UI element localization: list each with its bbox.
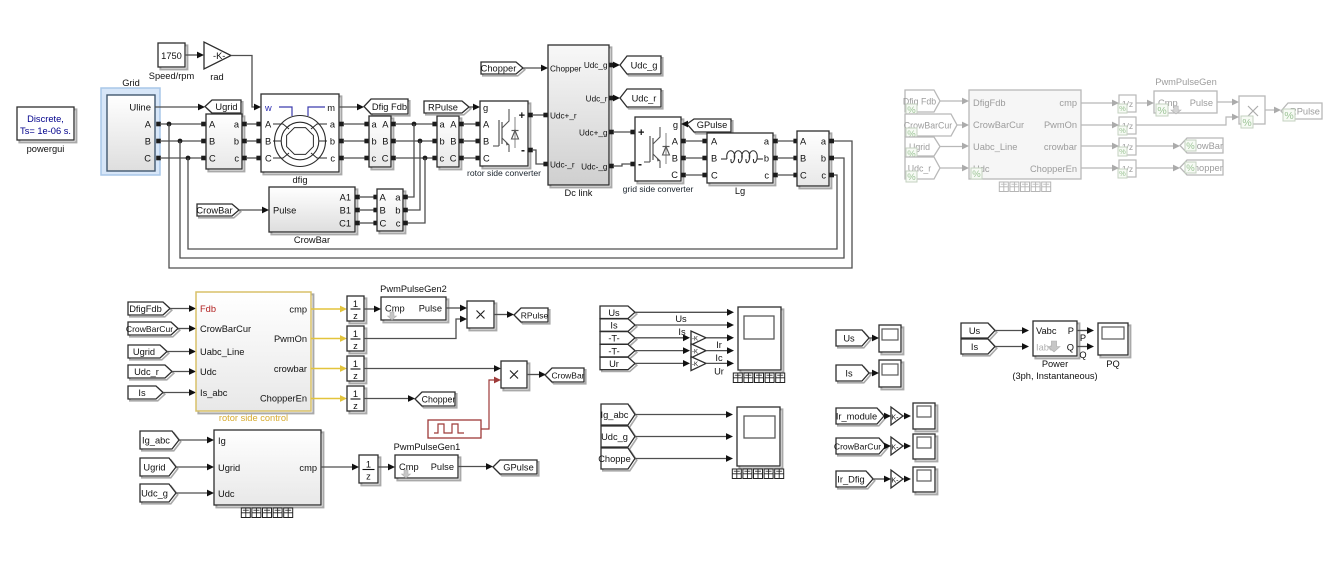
svg-text:%: % — [1119, 147, 1126, 156]
svg-text:GPulse: GPulse — [697, 120, 728, 130]
from tag GPulse (points left) — [689, 121, 733, 134]
goto tag RPulse — [516, 310, 550, 324]
svg-text:Udc+_r: Udc+_r — [550, 112, 577, 121]
svg-text:C: C — [144, 154, 151, 164]
rotor converter IGBT icon — [493, 145, 499, 147]
wire Grid B to measurement — [156, 139, 161, 144]
gain rad — [185, 54, 200, 56]
faded wire multiply to RPulse — [1265, 109, 1276, 111]
wire Pulse to multiply1 — [446, 307, 462, 309]
Lg inductor block — [709, 135, 775, 185]
svg-text:Chopper: Chopper — [422, 395, 456, 405]
svg-text:c: c — [372, 154, 377, 164]
svg-text:C: C — [380, 219, 387, 230]
faded wire crowbar to CrowBar tag — [1136, 145, 1175, 147]
faded PwmPulseGen block — [1154, 91, 1217, 113]
faded from tag CrowBarCur — [905, 114, 957, 136]
svg-text:C: C — [800, 171, 807, 181]
svg-text:z: z — [353, 371, 358, 381]
three-phase measurement block 4 — [799, 133, 831, 188]
wire Ur to gain — [635, 362, 685, 364]
svg-text:Ts= 1e-06 s.: Ts= 1e-06 s. — [20, 126, 71, 136]
svg-text:powergui: powergui — [27, 144, 65, 154]
multiply block 2 — [503, 363, 529, 390]
svg-text:Discrete,: Discrete, — [27, 114, 64, 124]
from tag Udc_g — [142, 486, 178, 504]
from tag Is — [130, 388, 165, 401]
svg-text:rotor side control: rotor side control — [219, 413, 288, 423]
faded wires to unit delays — [1081, 102, 1114, 104]
svg-text:1: 1 — [366, 460, 371, 470]
svg-text:Udc-_r: Udc-_r — [550, 161, 575, 170]
faded goto tag RPulse — [1281, 103, 1322, 119]
svg-text:K-: K- — [892, 478, 900, 485]
gain triangle CrowBarCur — [891, 437, 903, 455]
svg-text:CrowBarCur: CrowBarCur — [973, 120, 1024, 130]
svg-text:b: b — [372, 137, 377, 147]
svg-text:+: + — [519, 110, 525, 122]
svg-text:A1: A1 — [340, 193, 351, 203]
svg-text:CrowBarCur: CrowBarCur — [126, 324, 173, 334]
svg-text:Power: Power — [1042, 359, 1068, 369]
svg-text:Ic: Ic — [715, 353, 723, 363]
svg-text:Us: Us — [969, 326, 981, 336]
from tag Udc_g scope — [603, 428, 637, 449]
from tag RPulse top — [426, 103, 471, 115]
gain triangle Ir — [691, 331, 706, 345]
svg-text:Pulse: Pulse — [1190, 98, 1213, 108]
wires measurement2 to measurement3 with crowbar junctions — [391, 122, 396, 127]
grid scope block — [739, 409, 782, 468]
svg-text:GPulse: GPulse — [503, 463, 534, 473]
wires dfig rotor to measurement2 — [339, 122, 344, 127]
svg-text:b: b — [234, 137, 239, 147]
faded unit delay 1/z blocks — [1119, 95, 1136, 112]
display scope Ir_module — [915, 405, 937, 431]
svg-text:Pulse: Pulse — [419, 304, 442, 314]
svg-text:g: g — [673, 120, 678, 130]
svg-text:C1: C1 — [339, 219, 351, 229]
wires measurement3 to rotor side converter — [459, 122, 464, 127]
svg-text:Ig: Ig — [218, 436, 226, 446]
from tag Us power — [963, 325, 997, 340]
svg-text:1: 1 — [353, 389, 358, 399]
faded rotor controller block — [969, 90, 1081, 179]
svg-text:Q: Q — [1079, 350, 1086, 360]
svg-text:B: B — [145, 137, 151, 147]
unit delay 1/z block 4 — [349, 388, 366, 413]
svg-text:Dc link: Dc link — [565, 188, 593, 198]
svg-text:crowbar: crowbar — [274, 364, 307, 374]
unit delay 1/z block 5 — [361, 457, 380, 485]
svg-text:z: z — [353, 341, 358, 351]
wire -T- to gain Ic — [635, 350, 685, 352]
from tag Ugrid 2 — [142, 460, 178, 478]
svg-text:A: A — [145, 120, 152, 130]
wire -T- to gain Ir — [635, 337, 685, 339]
gain triangle Ur — [691, 357, 706, 371]
svg-text:K-: K- — [892, 445, 900, 452]
svg-text:CrowBar: CrowBar — [294, 235, 330, 245]
svg-text:B: B — [265, 137, 271, 147]
svg-text:z: z — [353, 401, 358, 411]
svg-text:-K: -K — [692, 349, 698, 355]
faded from tag Ugrid — [905, 137, 940, 156]
svg-text:B: B — [672, 154, 678, 164]
wires measurement1 to dfig — [242, 122, 247, 127]
svg-text:a: a — [821, 137, 827, 147]
svg-text:C: C — [265, 154, 272, 164]
dark red wire pulse generator to multiply2 — [481, 380, 495, 429]
svg-text:Ugrid: Ugrid — [133, 347, 155, 357]
svg-text:PwmOn: PwmOn — [1044, 120, 1077, 130]
svg-text:b: b — [330, 137, 335, 147]
svg-text:ChopperEn: ChopperEn — [1030, 164, 1077, 174]
svg-text:Chopper: Chopper — [481, 64, 517, 74]
svg-text:P: P — [1068, 326, 1074, 336]
faded multiply block — [1239, 96, 1265, 124]
svg-text:PwmPulseGen2: PwmPulseGen2 — [380, 284, 447, 294]
from tag Ir_module — [838, 410, 886, 426]
wire Us to scope — [635, 311, 729, 313]
svg-text:crowbar: crowbar — [1044, 142, 1077, 152]
yellow wire PwmOn to unit delay — [311, 338, 342, 340]
svg-text:CrowBar: CrowBar — [196, 206, 232, 216]
constant Speed/rpm 1750 — [160, 45, 187, 69]
wire phase A loop-back — [169, 124, 852, 268]
CrowBar block — [271, 189, 357, 234]
from tag CrowBarCur — [130, 324, 180, 337]
svg-text:b: b — [440, 137, 445, 147]
wire crowbar phase C junction — [406, 158, 425, 223]
svg-text:B: B — [711, 154, 717, 164]
svg-text:-T-: -T- — [608, 333, 619, 343]
multiply block 1 — [469, 303, 496, 330]
svg-text:c: c — [234, 154, 239, 164]
yellow wire ChopperEn to unit delay — [311, 398, 342, 400]
svg-text:A: A — [672, 137, 679, 147]
svg-text:Udc_r: Udc_r — [134, 367, 159, 377]
svg-text:CrowBar: CrowBar — [551, 371, 584, 381]
svg-text:A: A — [483, 120, 490, 130]
dfig machine icon — [275, 116, 326, 167]
from tag Ugrid — [130, 347, 169, 360]
svg-text:m: m — [327, 103, 335, 113]
svg-text:1: 1 — [353, 329, 358, 339]
svg-text:-K: -K — [692, 362, 698, 368]
yellow wire crowbar to unit delay — [311, 368, 342, 370]
svg-text:Uabc_Line: Uabc_Line — [200, 347, 244, 357]
from tag Ig_abc scope — [603, 406, 637, 427]
svg-text:grid side converter: grid side converter — [623, 184, 694, 194]
svg-text:Ugrid: Ugrid — [143, 463, 165, 473]
svg-text:Ir_module: Ir_module — [836, 412, 877, 422]
svg-text:B: B — [800, 154, 806, 164]
svg-text:Grid: Grid — [122, 78, 140, 88]
goto tag Chopper — [417, 394, 457, 408]
svg-text:Us: Us — [608, 308, 620, 318]
from tag -T- 1 — [602, 333, 637, 346]
svg-text:g: g — [483, 103, 488, 113]
svg-text:c: c — [764, 171, 769, 181]
svg-text:Udc-_g: Udc-_g — [581, 163, 608, 172]
svg-text:c: c — [440, 154, 445, 164]
faded goto tag Chopper — [1180, 160, 1223, 175]
gain triangle Ic — [691, 344, 706, 358]
svg-text:Q: Q — [1067, 343, 1074, 353]
svg-text:Ur: Ur — [609, 359, 619, 369]
svg-text:DfigFdb: DfigFdb — [973, 98, 1006, 108]
svg-text:%: % — [1186, 163, 1195, 174]
svg-text:Lg: Lg — [735, 186, 745, 196]
label grid side controller CJK — [241, 508, 250, 518]
machine scope block — [740, 309, 783, 372]
Dc link block — [550, 47, 611, 187]
label grid scope CJK — [732, 469, 741, 479]
from tag Is scope — [602, 321, 637, 334]
from tag CrowBar top — [199, 206, 241, 218]
svg-text:CrowBarCur: CrowBarCur — [200, 324, 251, 334]
grid side converter block — [637, 119, 683, 183]
wire multiply1 to RPulse goto — [494, 314, 509, 316]
svg-text:-: - — [521, 143, 525, 157]
svg-text:PwmPulseGen1: PwmPulseGen1 — [394, 442, 461, 452]
svg-text:Pulse: Pulse — [431, 462, 454, 472]
grid converter IGBT icon — [644, 161, 650, 163]
wire Udc+_g to grid converter + — [609, 130, 614, 135]
svg-text:PQ: PQ — [1106, 359, 1119, 369]
wire Chopper to grid scope — [635, 458, 728, 460]
svg-text:c: c — [330, 154, 335, 164]
svg-text:B1: B1 — [340, 206, 351, 216]
from tag Ur scope — [602, 359, 637, 372]
svg-text:1750: 1750 — [161, 51, 182, 61]
from tag Chopper scope — [603, 450, 637, 471]
pulse generator block — [428, 420, 481, 438]
wire Is to scope — [635, 324, 729, 326]
wire P to PQ — [1077, 330, 1089, 332]
PwmPulseGen2 block — [383, 299, 448, 322]
wire crowbar phase A junction — [406, 124, 414, 197]
wire Pulse to GPulse goto — [458, 466, 488, 468]
faded label rotor controller CJK — [999, 182, 1008, 192]
PQ display scope — [1100, 325, 1130, 357]
wire Udc_g to grid scope — [635, 436, 728, 438]
svg-text:1: 1 — [353, 359, 358, 369]
goto tag Dfig Fdb — [366, 101, 410, 116]
three-phase measurement block 1 — [208, 116, 244, 171]
svg-text:Udc: Udc — [218, 489, 235, 499]
from tag DfigFdb — [130, 304, 172, 317]
svg-text:DfigFdb: DfigFdb — [129, 304, 162, 314]
from tag Us scope — [602, 308, 637, 321]
svg-text:c: c — [821, 171, 826, 181]
svg-text:a: a — [764, 137, 770, 147]
svg-text:C: C — [671, 170, 678, 180]
yellow wire cmp to unit delay — [311, 308, 342, 310]
wire delay4 to Chopper goto — [364, 398, 410, 400]
svg-text:%: % — [1119, 126, 1126, 135]
svg-text:%: % — [1119, 169, 1126, 178]
wire dfig m to Dfig Fdb tag — [339, 106, 360, 108]
svg-text:Is: Is — [845, 369, 853, 379]
goto tag GPulse — [495, 462, 539, 476]
wire Q to PQ — [1077, 346, 1089, 348]
rotor side control block — [198, 294, 313, 413]
svg-text:%: % — [1284, 110, 1293, 122]
svg-text:cmp: cmp — [1059, 98, 1077, 108]
svg-text:%: % — [972, 169, 981, 180]
svg-text:PwmPulseGen: PwmPulseGen — [1155, 77, 1217, 87]
wire Ig_abc to grid scope — [635, 414, 728, 416]
svg-text:A: A — [450, 120, 457, 130]
svg-text:K-: K- — [892, 415, 900, 422]
svg-text:Udc_g: Udc_g — [141, 489, 168, 499]
svg-text:Speed/rpm: Speed/rpm — [149, 71, 195, 81]
svg-text:Udc_g: Udc_g — [631, 61, 658, 71]
from tag Ig_abc — [142, 433, 181, 451]
from tag Udc_r — [130, 367, 174, 380]
display scope Is — [881, 362, 903, 389]
display scope CrowBarCur — [915, 436, 937, 461]
svg-text:B: B — [450, 137, 456, 147]
svg-text:Uline: Uline — [129, 103, 151, 114]
svg-text:Dfig Fdb: Dfig Fdb — [372, 102, 407, 112]
svg-text:b: b — [821, 154, 826, 164]
faded goto tag CrowBar — [1180, 138, 1223, 153]
wire Udc-_g to grid converter - — [609, 164, 614, 169]
svg-text:%: % — [1242, 117, 1251, 129]
svg-text:C: C — [711, 171, 718, 181]
svg-text:Chopper: Chopper — [550, 65, 582, 74]
wire Udc_g output to tag — [609, 63, 614, 68]
svg-text:Udc+_g: Udc+_g — [579, 129, 608, 138]
faded from tag Udc_r — [905, 157, 940, 179]
wire Grid A to measurement — [156, 122, 161, 127]
from tag -T- 2 — [602, 346, 637, 359]
Lg coil icon — [721, 158, 727, 160]
svg-text:Is: Is — [971, 342, 979, 352]
svg-text:Ugrid: Ugrid — [215, 102, 237, 112]
wire cmp to delay5 — [321, 466, 354, 468]
from tag Chopper top — [483, 64, 525, 76]
svg-text:Uabc_Line: Uabc_Line — [973, 142, 1017, 152]
svg-text:A: A — [382, 120, 389, 130]
wire delay5 to PwmPulseGen1 — [378, 466, 390, 468]
from tag Is power — [963, 341, 997, 356]
faded wire chopper to Chopper tag — [1136, 167, 1175, 169]
svg-text:Us: Us — [843, 334, 855, 344]
svg-text:C: C — [209, 154, 216, 164]
svg-text:Ur: Ur — [714, 367, 724, 377]
svg-text:Cmp: Cmp — [399, 462, 419, 472]
gain triangle Ir_Dfig — [891, 470, 903, 488]
goto tag Ugrid — [207, 102, 243, 115]
wire gain to scope Ur — [706, 362, 729, 364]
svg-text:a: a — [440, 120, 446, 130]
svg-text:%: % — [1119, 104, 1126, 113]
svg-text:-K: -K — [692, 337, 698, 343]
from tag Is display — [838, 367, 871, 383]
wire delay3 to multiply2 — [364, 368, 496, 370]
wire Grid Uline to Ugrid tag — [155, 106, 201, 108]
PwmPulseGen1 block — [397, 457, 460, 480]
svg-text:Udc_g: Udc_g — [601, 432, 628, 442]
three-phase measurement block 2 — [371, 118, 393, 169]
svg-text:%: % — [907, 172, 916, 183]
unit delay 1/z block 3 — [349, 358, 366, 383]
svg-text:P: P — [1080, 333, 1086, 343]
from tag Ir_Dfig — [838, 473, 875, 489]
grid side controller block — [216, 432, 323, 507]
svg-text:Udc_r: Udc_r — [586, 95, 608, 104]
svg-text:A: A — [209, 120, 216, 130]
svg-text:Ig_abc: Ig_abc — [601, 410, 629, 420]
svg-text:%: % — [1157, 105, 1166, 117]
svg-text:1: 1 — [353, 299, 358, 309]
svg-text:Is: Is — [610, 321, 618, 331]
svg-text:dfig: dfig — [293, 175, 308, 185]
svg-text:A: A — [380, 193, 387, 204]
svg-text:PwmOn: PwmOn — [274, 334, 307, 344]
DFIG machine block — [263, 96, 341, 174]
svg-text:+: + — [638, 127, 644, 139]
svg-text:Cmp: Cmp — [385, 304, 405, 314]
goto tag Udc_g — [622, 58, 663, 76]
wire rotor converter + to Dc link — [528, 113, 533, 118]
svg-text:B: B — [380, 206, 386, 217]
svg-text:w: w — [264, 103, 272, 113]
unit delay 1/z block 2 — [349, 328, 366, 353]
wires Lg to measurement4 — [773, 139, 778, 144]
svg-text:Udc: Udc — [200, 367, 217, 377]
svg-text:a: a — [372, 120, 378, 130]
three-phase measurement block 5 (crowbar) — [379, 191, 405, 233]
svg-text:b: b — [764, 154, 769, 164]
svg-text:Ugrid: Ugrid — [218, 463, 240, 473]
wires CrowBar to measurement5 — [355, 195, 360, 200]
from tag CrowBarCur display — [838, 440, 888, 456]
wire gain to dfig w — [231, 56, 257, 108]
svg-text:%: % — [1186, 141, 1195, 152]
faded from tag Dfig Fdb — [905, 90, 940, 112]
svg-text:z: z — [353, 311, 358, 321]
svg-text:RPulse: RPulse — [521, 311, 549, 321]
svg-text:CrowBarCur: CrowBarCur — [834, 442, 881, 452]
wire delay1 to PwmPulseGen2 — [364, 308, 376, 310]
svg-text:z: z — [366, 472, 371, 482]
svg-text:A: A — [800, 137, 807, 147]
svg-text:(3ph, Instantaneous): (3ph, Instantaneous) — [1012, 371, 1097, 381]
Grid source block (selected) — [101, 88, 160, 175]
svg-text:Pulse: Pulse — [273, 206, 296, 216]
faded wire PwmOn to multiply — [1136, 117, 1234, 125]
svg-text:B: B — [209, 137, 215, 147]
svg-text:a: a — [330, 120, 336, 130]
unit delay 1/z block 1 — [349, 298, 366, 323]
svg-text:ChopperEn: ChopperEn — [260, 394, 307, 404]
three-phase measurement block 3 — [439, 118, 461, 169]
svg-text:rad: rad — [210, 72, 223, 82]
svg-text:Vabc: Vabc — [1036, 326, 1057, 336]
wire phase C loop-back — [188, 158, 837, 249]
wire multiply2 to CrowBar goto — [527, 374, 541, 376]
svg-text:Udc_r: Udc_r — [632, 94, 657, 104]
wire phase B loop-back — [180, 141, 844, 258]
goto tag Udc_r — [622, 91, 663, 109]
svg-text:-T-: -T- — [608, 346, 619, 356]
svg-text:a: a — [395, 193, 401, 204]
